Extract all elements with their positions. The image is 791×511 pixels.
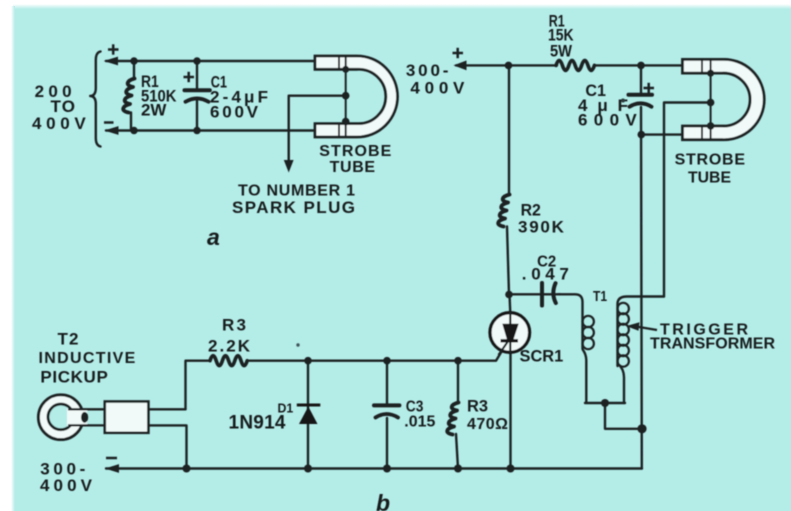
plus sign C1 a: [184, 76, 195, 79]
svg-text:1N914: 1N914: [229, 413, 286, 434]
resistor R3 470 top lead: [457, 361, 459, 403]
label D1 1N914: [229, 401, 294, 434]
wire R2 branch vertical: [508, 65, 510, 195]
junction C1 bottom / tube leg: [638, 131, 646, 139]
capacitor C1 2-4uF plates: [185, 88, 210, 92]
wire T1 common to return vertical: [605, 403, 642, 429]
svg-text:R3: R3: [467, 397, 488, 416]
label R3 470: [467, 397, 508, 434]
label to number 1 spark plug: [232, 183, 355, 218]
arrowhead supply + circuit b: [454, 61, 467, 71]
svg-text:5W: 5W: [550, 42, 573, 61]
plus sign supply a: [108, 48, 119, 51]
wire bottom rail circuit b: [106, 467, 642, 469]
label T2 inductive pickup: [39, 330, 136, 387]
wire bottom rail circuit a: [106, 129, 315, 131]
wire top rail circuit b right: [594, 64, 682, 66]
svg-text:TO NUMBER 1: TO NUMBER 1: [238, 183, 355, 200]
junction R2 branch top rail: [505, 62, 513, 70]
wire SCR1 anode lead: [508, 295, 511, 314]
label strobe tube b: [675, 152, 746, 187]
wire pickup bottom lead: [148, 425, 186, 468]
wire gate rail riser: [186, 361, 211, 410]
svg-text:400V: 400V: [40, 476, 93, 495]
thyristor SCR1: [490, 312, 530, 355]
wire T1 secondary bottom: [619, 365, 625, 404]
label 200 TO 400V: [32, 82, 86, 133]
svg-text:T1: T1: [593, 288, 607, 305]
junction D1 gate rail: [304, 357, 312, 365]
transformer T1 secondary coil: [618, 303, 629, 367]
wire pickup top lead: [148, 408, 185, 410]
junction R3 gate rail: [454, 357, 462, 365]
svg-text:TUBE: TUBE: [330, 159, 376, 176]
wire strobe trigger lead: [664, 103, 711, 297]
label 300-400V top: [406, 61, 465, 98]
junction SCR cathode bottom rail: [507, 465, 515, 473]
wire T1 secondary top hook: [618, 297, 665, 367]
diode D1 lead: [307, 361, 309, 469]
capacitor C2 plates: [540, 283, 544, 306]
label 300-400V bottom: [40, 460, 93, 496]
svg-text:TRANSFORMER: TRANSFORMER: [650, 336, 775, 353]
svg-text:STROBE: STROBE: [675, 152, 746, 169]
svg-text:R3: R3: [222, 316, 246, 335]
minus sign supply b: [106, 457, 117, 460]
wire to strobe tube bottom leg: [642, 133, 683, 135]
pointer line trigger transformer: [636, 327, 657, 331]
inductive pickup T2: [38, 395, 148, 440]
svg-text:STROBE: STROBE: [319, 143, 391, 160]
label R3 2.2K: [208, 316, 251, 356]
svg-text:SCR1: SCR1: [520, 347, 564, 366]
label trigger transformer: [650, 322, 775, 353]
svg-text:PICKUP: PICKUP: [40, 368, 107, 387]
capacitor C3 top lead: [386, 361, 388, 405]
wire C1 bottom / long return vertical: [640, 107, 643, 469]
capacitor C1 4uF plates: [629, 93, 653, 97]
resistor R2 390K: [498, 195, 509, 227]
label R1 510K 2W: [141, 72, 177, 120]
arrowhead supply + circuit a: [104, 57, 118, 66]
wire T1 primary bottom: [583, 350, 625, 403]
ink speck: [296, 343, 299, 346]
wire gate rail to SCR1 gate: [247, 343, 507, 361]
transformer T1 primary coil: [583, 316, 594, 349]
label C1 2-4uF 600V: [210, 73, 268, 122]
label R1 15K 5W: [548, 12, 574, 61]
plus sign supply b: [453, 52, 464, 55]
svg-text:2W: 2W: [141, 101, 167, 120]
junction R1 bottom rail a: [130, 127, 137, 134]
capacitor C1 4uF top lead: [640, 65, 642, 94]
label C1 4uF 600V: [578, 81, 637, 130]
strobe tube (circuit a): [315, 56, 398, 137]
capacitor C3 plates: [374, 403, 399, 407]
capacitor C2 left lead: [509, 293, 560, 295]
wire top rail circuit a: [106, 60, 315, 62]
junction pickup return: [183, 465, 191, 473]
svg-text:a: a: [207, 224, 220, 250]
resistor R3 470 bottom lead: [456, 434, 458, 469]
wire top rail circuit b left: [456, 64, 557, 66]
svg-text:b: b: [376, 490, 390, 511]
plus sign C1 b: [644, 87, 655, 90]
arrowhead trigger transformer pointer: [626, 322, 639, 330]
junction D1 bottom rail: [304, 465, 312, 473]
junction R1 top rail a: [130, 57, 137, 64]
junction C1 top rail b: [637, 62, 645, 70]
label R2 390K: [518, 201, 565, 237]
junction C1 bottom rail a: [193, 127, 200, 134]
label strobe tube a: [319, 143, 391, 176]
ink speck near C1b: [621, 99, 625, 103]
svg-text:390K: 390K: [518, 218, 565, 237]
resistor R3 470 body: [447, 403, 458, 435]
capacitor C1 2-4uF top lead: [196, 61, 198, 90]
junction T1 common: [601, 399, 609, 407]
svg-text:TUBE: TUBE: [688, 170, 731, 187]
junction R3 bottom rail: [454, 465, 462, 473]
svg-text:2.2K: 2.2K: [208, 337, 251, 356]
svg-text:470Ω: 470Ω: [467, 416, 508, 433]
diode D1 1N914: [297, 405, 321, 424]
svg-text:600V: 600V: [210, 103, 259, 122]
resistor R1 15K 5W: [556, 60, 594, 70]
label C3 .015: [404, 399, 435, 431]
junction C3 bottom rail: [383, 465, 391, 473]
resistor R3 2.2K: [210, 356, 247, 366]
junction C1 top rail a: [193, 57, 200, 64]
capacitor C3 bottom lead: [386, 418, 388, 469]
capacitor C1 2-4uF bottom lead: [196, 101, 198, 131]
capacitor C2 right lead to T1 primary: [559, 294, 583, 349]
arrowhead supply - circuit a: [104, 126, 118, 135]
arrowhead supply - circuit b: [105, 464, 119, 473]
wire SCR1 cathode lead: [509, 353, 511, 469]
wire R2 to C2 node: [507, 227, 509, 295]
svg-text:SPARK PLUG: SPARK PLUG: [232, 198, 355, 217]
brace 200-400V: [90, 52, 100, 147]
svg-text:.015: .015: [404, 414, 435, 431]
arrowhead to spark plug: [284, 160, 294, 173]
junction C3 gate rail: [383, 357, 391, 365]
label C2 .047: [522, 254, 569, 284]
svg-text:INDUCTIVE: INDUCTIVE: [39, 350, 136, 367]
resistor R1 510K 2W: [133, 61, 135, 79]
strobe tube (circuit b): [683, 59, 765, 139]
svg-text:300-: 300-: [406, 61, 449, 80]
junction T1 to return vertical: [637, 424, 646, 433]
junction C2 / SCR anode node: [505, 291, 513, 299]
wire spark plug lead: [289, 96, 344, 160]
minus sign supply a: [104, 121, 114, 124]
